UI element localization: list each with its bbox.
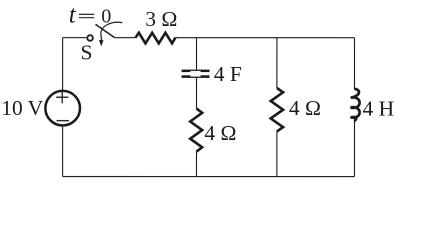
wire: right branch inductor to bottom rail xyxy=(353,121,355,177)
svg-text:0: 0 xyxy=(101,5,111,27)
svg-text:10 V: 10 V xyxy=(1,96,43,120)
inductor L 4H coil xyxy=(351,89,360,121)
wire: left vertical from source bottom to bottom rail xyxy=(62,127,64,177)
resistor R2 4-ohm vertical (middle branch) xyxy=(190,109,202,152)
svg-text:t: t xyxy=(69,1,77,28)
resistor R1 3-ohm zigzag xyxy=(136,33,176,44)
switch S contact circle xyxy=(87,35,93,41)
wire: middle branch capacitor to 4-ohm resistor xyxy=(195,78,197,109)
svg-text:4 Ω: 4 Ω xyxy=(289,96,321,120)
svg-text:4 H: 4 H xyxy=(362,97,394,121)
wire: right branch top rail to inductor xyxy=(354,38,356,90)
voltage source minus sign xyxy=(56,120,68,122)
svg-text:4 F: 4 F xyxy=(214,62,242,86)
wire: top rail from switch blade pivot to 3-ohm resistor xyxy=(115,37,136,39)
svg-text:4 Ω: 4 Ω xyxy=(204,121,236,145)
wire: third branch top rail to 4-ohm resistor xyxy=(276,38,278,88)
svg-text:S: S xyxy=(81,40,93,64)
switch S blade xyxy=(96,24,115,37)
capacitor C 4F top plate xyxy=(182,70,210,73)
voltage source plus sign xyxy=(56,91,68,103)
switch closing arrow arc xyxy=(101,22,123,40)
switch arrow head xyxy=(99,40,104,46)
wire: bottom rail xyxy=(63,176,355,178)
wire: middle branch resistor to bottom rail xyxy=(195,151,197,176)
wire: top rail from 3-ohm resistor to right edge xyxy=(175,37,354,39)
resistor R3 4-ohm vertical (third branch) xyxy=(271,88,283,131)
capacitor center notch xyxy=(190,71,200,77)
capacitor C 4F bottom plate xyxy=(182,75,210,78)
svg-text:3 Ω: 3 Ω xyxy=(145,7,177,31)
wire: third branch resistor to bottom rail xyxy=(276,131,278,176)
wire: left vertical from top corner down to source top xyxy=(62,38,64,90)
wire: middle branch from top rail to capacitor xyxy=(196,38,198,70)
voltage source V1 circle xyxy=(45,91,80,126)
wire: top-left horizontal from corner to switch contact xyxy=(63,37,87,39)
